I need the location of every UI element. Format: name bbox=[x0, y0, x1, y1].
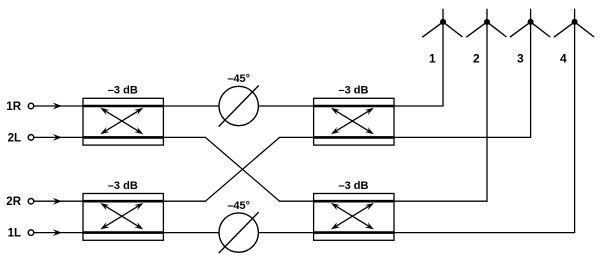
terminal 2L bbox=[28, 134, 83, 141]
hybrid coupler bottom-right bbox=[314, 194, 394, 241]
crossover wire BL-top-out to TR-bottom-in bbox=[163, 137, 313, 201]
wire TR top output to antenna 1 bbox=[394, 9, 443, 106]
wire phase shifter to coupler TR bbox=[258, 105, 313, 107]
antenna 4 bbox=[554, 19, 594, 37]
crossover wire TL-bottom-out to BR-top-in bbox=[163, 137, 313, 201]
svg-text:–3 dB: –3 dB bbox=[108, 180, 138, 192]
svg-text:2R: 2R bbox=[6, 196, 21, 208]
phase shifter top bbox=[219, 86, 259, 127]
svg-text:1: 1 bbox=[429, 52, 436, 66]
wire coupler BL to phase shifter (rail 1L) bbox=[163, 232, 219, 234]
svg-text:1L: 1L bbox=[8, 228, 21, 240]
antenna 2 bbox=[466, 19, 506, 37]
hybrid coupler bottom-left bbox=[83, 194, 163, 241]
svg-text:–3 dB: –3 dB bbox=[108, 85, 138, 97]
antenna 1 bbox=[422, 19, 462, 37]
hybrid coupler top-left bbox=[83, 98, 163, 145]
svg-text:–45°: –45° bbox=[227, 73, 250, 85]
wire BR top output to antenna 2 bbox=[394, 9, 487, 201]
hybrid coupler top-right bbox=[314, 98, 394, 145]
terminal 1R bbox=[28, 103, 83, 110]
svg-text:–3 dB: –3 dB bbox=[339, 85, 369, 97]
phase shifter bottom bbox=[219, 212, 259, 253]
terminal 1L bbox=[28, 229, 83, 236]
svg-text:2L: 2L bbox=[8, 132, 21, 144]
svg-text:1R: 1R bbox=[6, 101, 21, 113]
svg-text:–45°: –45° bbox=[227, 200, 250, 212]
wire BR bottom output to antenna 4 bbox=[394, 9, 575, 233]
wire phase shifter to coupler BR bbox=[258, 232, 313, 234]
svg-text:4: 4 bbox=[560, 52, 567, 66]
wire coupler TL to phase shifter (rail 1R) bbox=[163, 105, 219, 107]
svg-text:–3 dB: –3 dB bbox=[339, 180, 369, 192]
terminal 2R bbox=[28, 198, 83, 205]
wire TR bottom output to antenna 3 bbox=[394, 9, 531, 138]
svg-text:3: 3 bbox=[517, 52, 524, 66]
antenna 3 bbox=[510, 19, 550, 37]
svg-text:2: 2 bbox=[473, 52, 480, 66]
